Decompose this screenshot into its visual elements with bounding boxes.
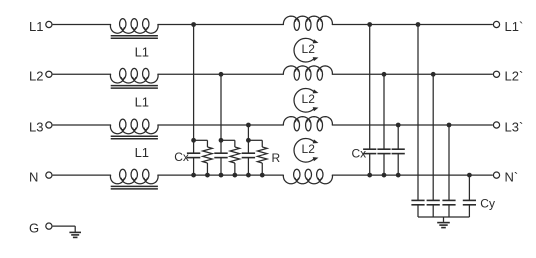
wire R1 bottom	[206, 163, 208, 175]
capacitor Cx4	[363, 148, 376, 150]
wire L1 middle	[158, 24, 284, 26]
wire L2 left	[53, 73, 111, 75]
node L1-Cx1	[191, 22, 196, 27]
capacitor Cy3	[442, 199, 455, 201]
node L2-Cx2	[219, 72, 224, 77]
node Cx3-R3	[246, 138, 251, 143]
node L1-Cx4	[367, 22, 372, 27]
capacitor Cx5	[377, 148, 390, 150]
svg-text:N`: N`	[505, 169, 519, 184]
wire Cx4 top	[369, 25, 371, 150]
ground Cy	[437, 222, 450, 224]
wire Cy3 bottom	[448, 205, 450, 217]
capacitor Cx6	[392, 148, 405, 150]
wire Cx2 bottom	[220, 158, 222, 176]
wire Cy4 top	[468, 175, 470, 200]
node Cx2-R2	[219, 138, 224, 143]
wire ground stem	[443, 217, 445, 222]
wire Cx3 top	[247, 125, 249, 153]
svg-text:Cx: Cx	[174, 150, 189, 164]
inductor L1	[110, 74, 158, 83]
wire L3 middle	[158, 124, 284, 126]
wire Cy1 top	[417, 25, 419, 201]
choke symbol L2 arrow 2	[294, 89, 314, 113]
node Cx1-R1	[191, 138, 196, 143]
wire Cx3 bottom	[247, 158, 249, 176]
inductor L1	[110, 125, 158, 134]
choke winding L2 (N)	[283, 175, 332, 184]
terminal L3`	[493, 122, 499, 128]
wire Cx2 top	[220, 74, 222, 153]
node N-Cx2	[219, 173, 224, 178]
svg-text:L3`: L3`	[505, 119, 524, 134]
svg-text:L1: L1	[135, 95, 149, 110]
wire L2 middle	[158, 73, 284, 75]
resistor R3	[257, 147, 267, 163]
node L3-Cy3	[447, 123, 452, 128]
svg-text:N: N	[29, 169, 38, 184]
svg-text:R: R	[272, 151, 281, 165]
wire Cx4 bottom	[369, 154, 371, 176]
node L1-Cy1	[416, 22, 421, 27]
wire Cx1 top	[193, 25, 195, 154]
wire Cx6 top	[397, 125, 399, 149]
svg-text:Cy: Cy	[480, 197, 495, 211]
svg-text:G: G	[29, 220, 39, 235]
choke winding L2 (L1)	[283, 16, 332, 24]
inductor L1 (N)	[110, 175, 158, 184]
terminal L3	[46, 122, 52, 128]
svg-text:L3: L3	[29, 119, 43, 134]
node L2-Cy2	[431, 72, 436, 77]
wire L1 right	[332, 24, 493, 26]
terminal L2	[46, 71, 52, 77]
node N-Cy4	[467, 173, 472, 178]
svg-text:Cx: Cx	[352, 146, 367, 160]
capacitor Cy1	[411, 199, 424, 201]
svg-text:L2`: L2`	[505, 69, 524, 84]
svg-text:L1: L1	[135, 145, 149, 160]
svg-text:L2: L2	[302, 92, 316, 106]
wire Cx6 bottom	[397, 154, 399, 176]
wire L3 right	[332, 124, 493, 126]
wire Cy4 bottom	[468, 205, 470, 217]
node N-Cx1	[191, 173, 196, 178]
capacitor Cx3	[242, 152, 255, 154]
node N-R2	[232, 173, 237, 178]
choke symbol L2 arrow 3	[294, 139, 314, 163]
terminal N	[46, 172, 52, 178]
terminal L2`	[493, 71, 499, 77]
wire N left	[53, 174, 111, 176]
wire R3 top	[248, 139, 262, 141]
wire Cx5 top	[383, 74, 385, 149]
wire G	[53, 225, 76, 227]
wire N middle	[158, 174, 284, 176]
choke winding L2 (L3)	[283, 117, 332, 125]
svg-text:L2: L2	[302, 142, 316, 156]
ground G	[69, 231, 81, 233]
wire R3 bottom	[261, 163, 263, 175]
wire R1 top	[194, 139, 208, 141]
svg-text:L1: L1	[29, 19, 43, 34]
node N-R3	[260, 173, 265, 178]
terminal G	[46, 223, 52, 229]
resistor R2	[230, 147, 240, 163]
capacitor Cy4	[463, 199, 476, 201]
terminal L1`	[493, 21, 499, 27]
terminal L1	[46, 21, 52, 27]
node N-R1	[205, 173, 210, 178]
wire L2 right	[332, 73, 493, 75]
node N-Cx4	[367, 173, 372, 178]
wire Cy1 bottom	[417, 205, 419, 217]
resistor R1	[203, 147, 213, 163]
choke symbol L2 arrow 1	[294, 38, 314, 62]
svg-text:L2: L2	[302, 42, 316, 56]
node N-Cx3	[246, 173, 251, 178]
wire Cy3 top	[448, 125, 450, 200]
wire N right	[332, 174, 493, 176]
node L3-Cx3	[246, 123, 251, 128]
wire R2 top	[221, 139, 235, 141]
choke winding L2 (L2)	[283, 66, 332, 74]
wire L3 left	[53, 124, 111, 126]
svg-text:L1: L1	[135, 45, 149, 60]
node N-Cx6	[396, 173, 401, 178]
node N-Cx5	[382, 173, 387, 178]
wire Cy bus	[418, 216, 469, 218]
node L3-Cx6	[396, 123, 401, 128]
node L2-Cx5	[382, 72, 387, 77]
wire Cx5 bottom	[383, 154, 385, 176]
capacitor Cx1	[187, 152, 200, 154]
wire R2 bottom	[234, 163, 236, 175]
wire Cy2 bottom	[432, 205, 434, 217]
wire Cx1 bottom	[193, 158, 195, 176]
svg-text:L1`: L1`	[505, 19, 524, 34]
capacitor Cx2	[214, 152, 227, 154]
inductor L1	[110, 25, 158, 34]
capacitor Cy2	[427, 199, 440, 201]
svg-text:L2: L2	[29, 69, 43, 84]
terminal N`	[493, 172, 499, 178]
wire L1 left	[53, 24, 111, 26]
wire Cy2 top	[432, 74, 434, 200]
